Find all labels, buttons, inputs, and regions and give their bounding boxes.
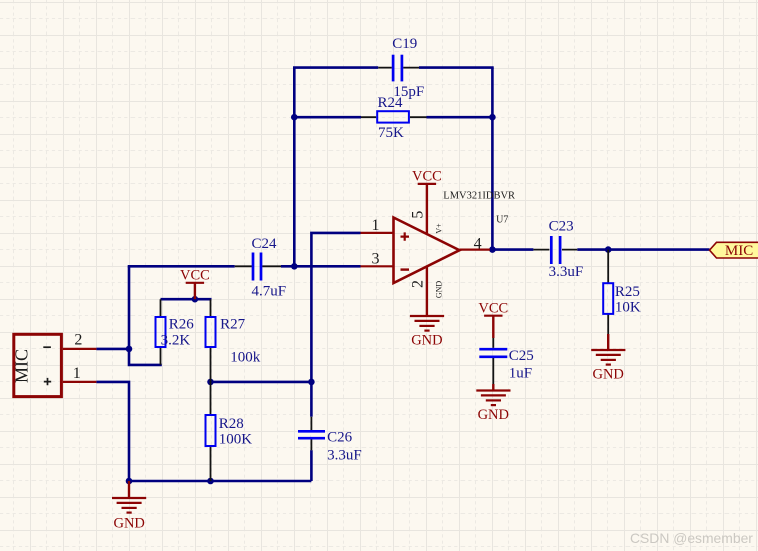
wire R24 row right	[427, 116, 493, 119]
svg-text:1: 1	[73, 365, 81, 382]
svg-text:4: 4	[474, 235, 482, 252]
resistor R25	[603, 250, 641, 334]
wire left rail (MIC pin 2 net)	[129, 266, 162, 365]
svg-text:CSDN @esmember: CSDN @esmember	[630, 530, 753, 546]
wire feedback top-left vertical (net C24/pin3 to feedback)	[293, 68, 296, 267]
svg-text:GND: GND	[113, 516, 144, 532]
wire C24 input row (from left rail to C24)	[129, 265, 235, 266]
resistor R24	[361, 95, 427, 141]
power VCC (op-amp pin 5)	[412, 168, 442, 184]
svg-text:1: 1	[372, 217, 380, 234]
junction dot VCC / R26 R27 rail	[192, 296, 199, 303]
wire MIC pin 2 to left rail	[96, 348, 130, 351]
svg-text:MIC: MIC	[12, 349, 32, 383]
capacitor C25	[479, 338, 533, 384]
svg-text:VCC: VCC	[180, 267, 210, 283]
svg-text:1uF: 1uF	[509, 366, 532, 382]
svg-text:2: 2	[74, 332, 82, 349]
junction dot MIC pin2 / left rail	[126, 346, 133, 353]
junction dot node A right (pin1/C26)	[308, 379, 315, 386]
svg-text:MIC: MIC	[725, 243, 753, 259]
junction dot feedback-left / R24 row	[291, 114, 298, 121]
svg-text:100k: 100k	[230, 349, 260, 365]
svg-text:C23: C23	[549, 219, 574, 235]
junction dot ground rail / GND stem	[126, 478, 133, 485]
junction dot ground rail / R28	[207, 478, 214, 485]
svg-text:GND: GND	[411, 333, 442, 349]
svg-text:LMV321IDBVR: LMV321IDBVR	[443, 191, 515, 202]
svg-text:5: 5	[410, 211, 427, 219]
wire op-amp pin 1 to node A vertical	[311, 233, 360, 382]
wire R24 row left	[294, 116, 361, 119]
junction dot output / R25	[605, 246, 612, 253]
svg-text:VCC: VCC	[478, 300, 508, 316]
wire node A to C26 top	[310, 382, 313, 417]
power VCC (above R26/R27)	[180, 267, 210, 299]
svg-text:3.3uF: 3.3uF	[327, 448, 362, 464]
svg-text:C25: C25	[509, 348, 534, 364]
wire MIC pin 1 down to ground rail	[96, 382, 129, 481]
ground GND (bottom left)	[112, 481, 146, 532]
junction dot node A left (R27/R28)	[207, 379, 214, 386]
svg-text:75K: 75K	[378, 125, 404, 141]
svg-text:R28: R28	[219, 416, 244, 432]
svg-text:C26: C26	[327, 429, 353, 445]
svg-text:V+: V+	[435, 223, 444, 234]
svg-text:R27: R27	[220, 316, 246, 332]
op-amp U7 LMV321IDBVR	[361, 185, 516, 300]
svg-text:GND: GND	[478, 407, 509, 423]
svg-text:4.7uF: 4.7uF	[252, 283, 287, 299]
svg-text:GND: GND	[435, 281, 444, 299]
svg-text:3.2K: 3.2K	[161, 332, 191, 348]
resistor R26	[156, 299, 195, 365]
wire VCC rail above R26 R27	[161, 298, 212, 301]
wire node A horizontal (R27/R28 to pin1 net)	[211, 381, 312, 384]
resistor R27	[206, 299, 261, 382]
capacitor C24	[235, 236, 286, 299]
power VCC (C25 decoupling)	[478, 300, 508, 338]
wire C24 to op-amp pin 3	[281, 265, 361, 268]
svg-text:3.3uF: 3.3uF	[549, 264, 584, 280]
wire C23 to MIC port	[577, 248, 709, 251]
svg-text:R24: R24	[378, 95, 404, 111]
wire op-amp output to C23	[490, 248, 533, 251]
wire feedback top horizontal right of C19	[419, 66, 494, 69]
svg-text:R26: R26	[169, 316, 195, 332]
junction dot op-amp output / feedback rail	[489, 246, 496, 253]
svg-text:GND: GND	[592, 367, 623, 383]
resistor R28	[206, 382, 253, 481]
watermark	[630, 530, 753, 546]
svg-text:2: 2	[410, 280, 427, 288]
svg-text:10K: 10K	[615, 299, 641, 315]
svg-text:U7: U7	[496, 215, 508, 226]
ground GND (C25)	[476, 384, 510, 423]
connector MIC (J?)	[12, 332, 97, 397]
svg-text:100K: 100K	[219, 431, 253, 447]
svg-text:3: 3	[372, 250, 380, 267]
wire feedback top horizontal left of C19	[293, 66, 378, 69]
junction dot C24 output / feedback rail	[291, 263, 298, 270]
svg-text:C19: C19	[392, 36, 417, 52]
capacitor C19	[378, 36, 424, 100]
wire ground rail bottom	[129, 480, 311, 483]
junction dot feedback-right / R24 row	[489, 114, 496, 121]
capacitor C26	[298, 417, 362, 464]
capacitor C23	[533, 219, 583, 280]
wire C26 bottom to ground rail	[310, 450, 313, 481]
svg-text:C24: C24	[252, 236, 278, 252]
wire feedback right vertical	[491, 68, 494, 250]
svg-text:VCC: VCC	[412, 168, 442, 184]
svg-text:R25: R25	[615, 284, 640, 300]
ground GND (R25)	[591, 334, 625, 383]
ground GND (op-amp pin 2)	[410, 300, 444, 349]
net label MIC (output port flag)	[710, 242, 758, 259]
